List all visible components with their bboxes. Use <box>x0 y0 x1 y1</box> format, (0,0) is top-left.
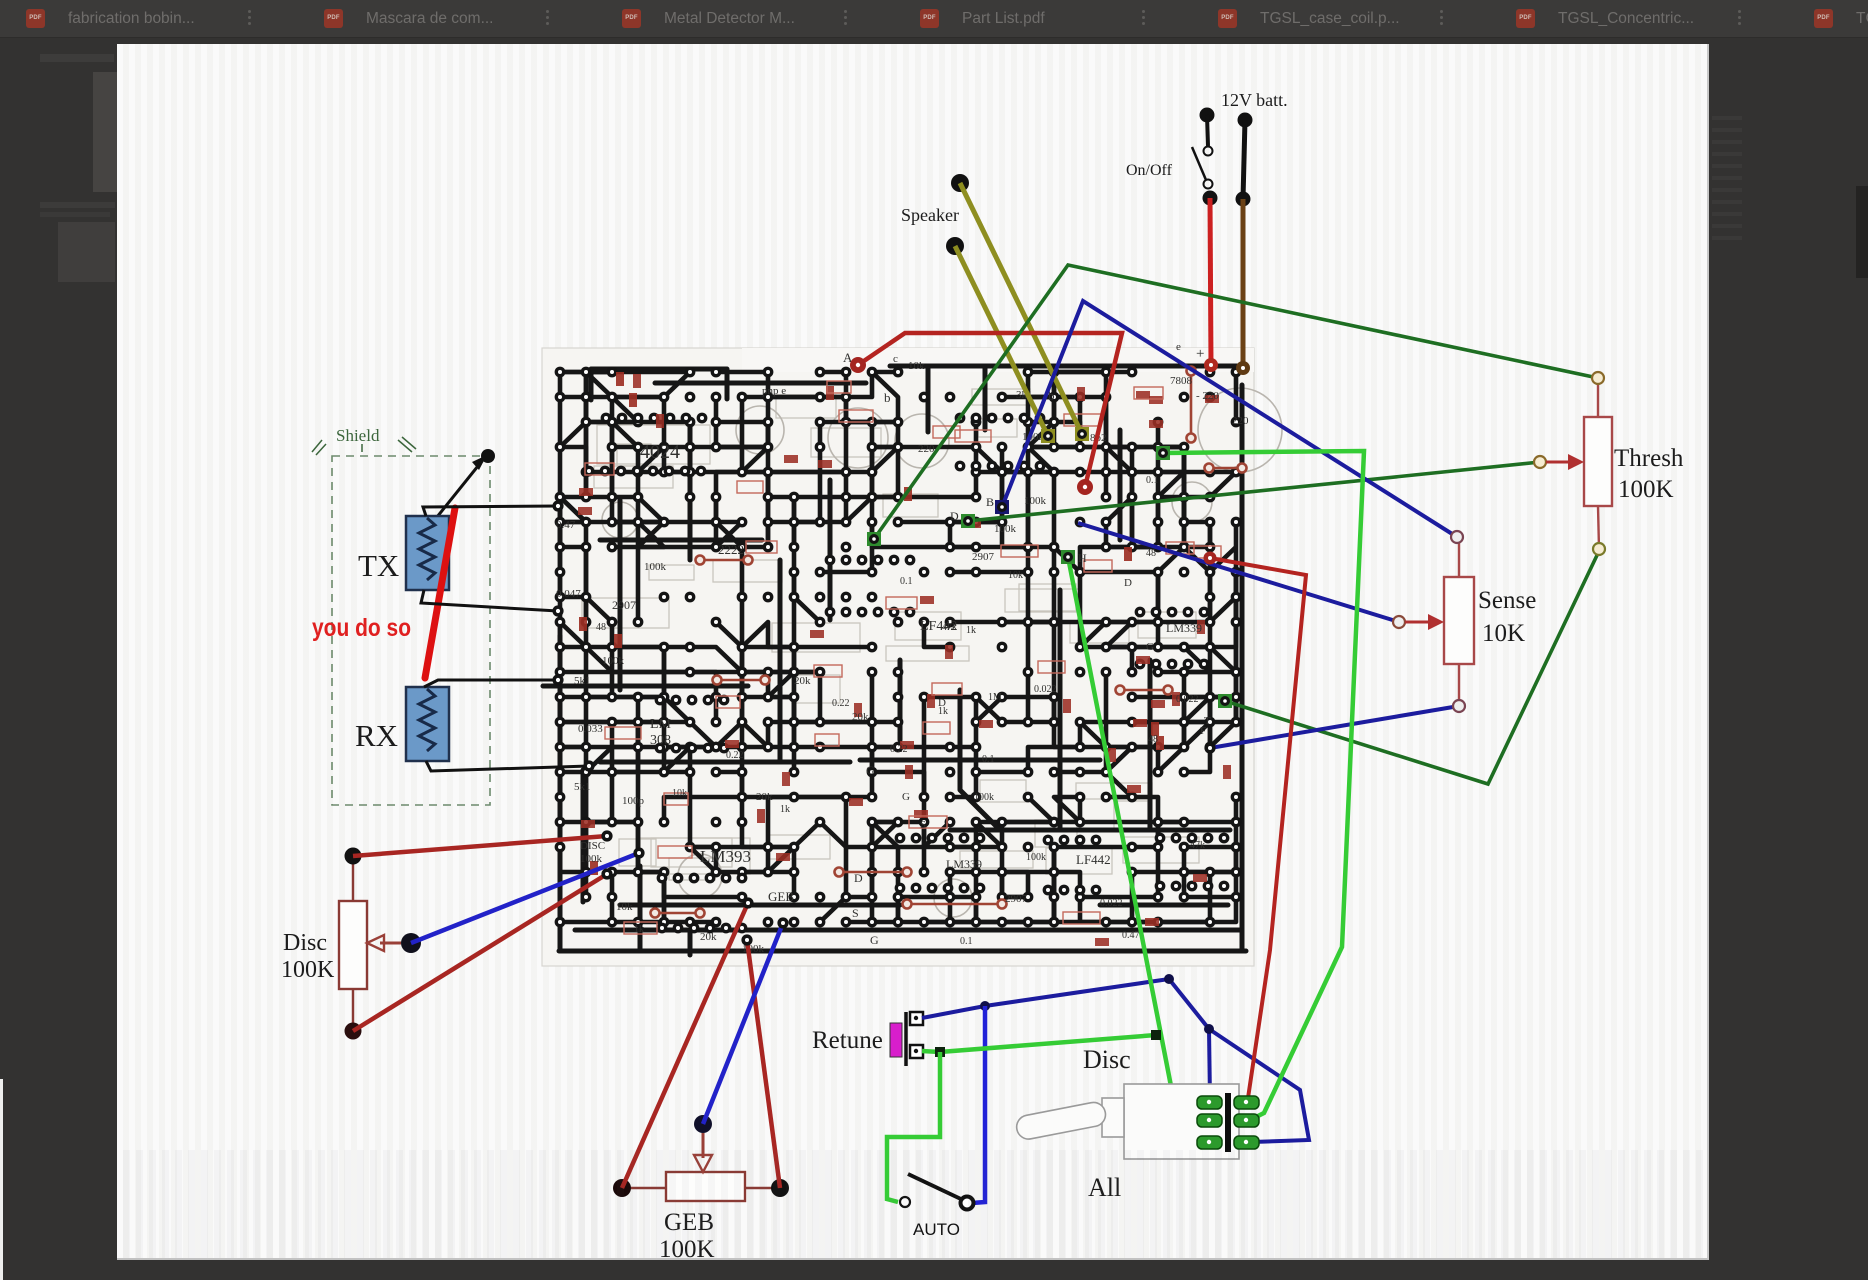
thick red coil interconnect <box>425 508 455 678</box>
PCB text labels <box>556 341 1249 955</box>
bright green wire junction squares <box>935 1030 1161 1057</box>
GEB label <box>659 1209 715 1263</box>
svg-text:12V batt.: 12V batt. <box>1221 90 1288 110</box>
PCB scan background <box>542 348 1254 966</box>
svg-text:D: D <box>950 509 959 523</box>
svg-text:48: 48 <box>1146 548 1156 559</box>
svg-text:G: G <box>870 933 879 947</box>
svg-text:1k: 1k <box>780 804 790 815</box>
svg-text:0.1: 0.1 <box>1146 475 1159 486</box>
electrolytic capacitor outlines <box>602 388 1282 917</box>
dark green wire: PCB to Thresh bottom <box>1218 549 1600 784</box>
coil TX <box>406 516 449 590</box>
blue wire Retune junction to AUTO switch <box>972 1006 985 1203</box>
speaker wire 2 (olive) <box>955 246 1048 436</box>
pads for coil wires <box>552 500 594 771</box>
switched battery wire (red) to PCB + <box>1203 191 1219 373</box>
svg-text:100k: 100k <box>1024 495 1047 507</box>
shield dashed enclosure <box>332 456 490 805</box>
svg-text:100K: 100K <box>1618 476 1674 503</box>
blue wire junction dots <box>980 974 1214 1034</box>
white notch at screen left edge <box>0 1079 3 1280</box>
toggle green terminals <box>1197 1096 1259 1149</box>
svg-text:0.022: 0.022 <box>1176 694 1199 705</box>
svg-text:10k: 10k <box>672 788 687 799</box>
battery positive lead (black then brown) <box>1236 113 1253 376</box>
svg-text:S: S <box>920 819 926 831</box>
svg-text:0.1: 0.1 <box>982 754 995 765</box>
svg-text:D: D <box>854 871 863 885</box>
potentiometer Disc 100K <box>339 848 421 1040</box>
svg-text:20k: 20k <box>756 791 773 803</box>
svg-text:4024: 4024 <box>640 441 680 463</box>
battery negative lead <box>1200 108 1215 147</box>
svg-text:2907: 2907 <box>1005 893 1028 905</box>
blue wire Disc wiper to PCB <box>411 853 639 943</box>
svg-text:100k: 100k <box>994 523 1017 535</box>
svg-text:Sense: Sense <box>1478 587 1536 614</box>
svg-text:220: 220 <box>1232 415 1249 427</box>
bright green wire PCB pad H to toggle middle-left <box>1061 550 1199 1122</box>
Disc label <box>281 930 335 983</box>
browser tab bar <box>0 0 1868 38</box>
svg-text:G: G <box>902 791 910 803</box>
coil RX <box>406 687 449 761</box>
svg-text:10K: 10K <box>1482 620 1525 647</box>
svg-text:T: T <box>1204 715 1211 727</box>
red wire A: pad A to inner pad <box>850 333 1122 495</box>
svg-text:Speaker: Speaker <box>901 205 959 225</box>
svg-text:0.033: 0.033 <box>578 723 603 735</box>
maroon jumper links <box>651 367 1247 918</box>
svg-text:2222: 2222 <box>718 542 744 557</box>
svg-text:G: G <box>866 763 875 777</box>
svg-text:On/Off: On/Off <box>1126 162 1173 179</box>
svg-text:0.022: 0.022 <box>1034 684 1057 695</box>
dark red wire GEB left to PCB <box>622 903 748 1188</box>
Sense label <box>1478 587 1536 647</box>
svg-text:220: 220 <box>918 443 935 455</box>
svg-text:5k1: 5k1 <box>574 781 591 793</box>
wire TX top to PCB <box>423 506 558 516</box>
svg-text:S: S <box>852 906 859 920</box>
svg-text:308: 308 <box>650 733 671 748</box>
svg-text:D: D <box>938 697 946 709</box>
svg-text:20k: 20k <box>852 711 869 723</box>
dimmed underlying page, left side <box>40 54 114 62</box>
svg-text:you do so: you do so <box>312 614 411 642</box>
svg-text:0.022: 0.022 <box>1100 898 1123 909</box>
svg-text:5k1: 5k1 <box>574 675 591 687</box>
blue wire: Sense bottom to pad F <box>1210 706 1459 748</box>
svg-text:20k: 20k <box>794 675 811 687</box>
svg-text:100k: 100k <box>974 792 994 803</box>
svg-text:c: c <box>893 353 898 365</box>
svg-text:+: + <box>1196 346 1204 362</box>
svg-text:10k: 10k <box>908 360 925 372</box>
wire RX bottom to PCB <box>426 761 589 771</box>
dark green wire: pad D to Thresh wiper <box>961 462 1540 528</box>
pad F <box>1204 742 1215 753</box>
svg-text:GEB: GEB <box>768 889 794 904</box>
svg-text:47k: 47k <box>942 622 957 633</box>
svg-text:LM393: LM393 <box>700 847 751 866</box>
svg-text:1k: 1k <box>966 625 976 636</box>
svg-text:TX: TX <box>358 548 399 583</box>
potentiometer Thresh 100K <box>1534 372 1612 555</box>
svg-text:Thresh: Thresh <box>1614 445 1684 472</box>
shield drain wire with arrow <box>437 449 495 517</box>
svg-text:0.22: 0.22 <box>726 750 744 761</box>
svg-text:DISC: DISC <box>580 840 605 852</box>
dark red wire Disc top to PCB <box>353 836 607 856</box>
pad B <box>995 500 1009 514</box>
dark green wire: PCB to Thresh top <box>867 265 1598 546</box>
svg-text:100k: 100k <box>1026 852 1046 863</box>
svg-text:1M: 1M <box>988 692 1002 703</box>
svg-text:100K: 100K <box>281 957 335 983</box>
svg-text:0.047: 0.047 <box>556 588 581 600</box>
svg-text:0.22: 0.22 <box>890 744 908 755</box>
svg-text:48: 48 <box>1148 734 1158 745</box>
svg-text:- 220: - 220 <box>1196 390 1219 402</box>
svg-text:LM: LM <box>650 717 672 732</box>
svg-text:RX: RX <box>355 718 398 753</box>
AUTO switch <box>900 1174 974 1210</box>
dark red wire Disc bottom to PCB <box>353 874 607 1031</box>
Retune button <box>890 1012 923 1066</box>
svg-text:1k: 1k <box>634 924 644 935</box>
svg-text:LM339: LM339 <box>1166 621 1202 635</box>
bright green wire to AUTO switch <box>887 1052 940 1202</box>
wire TX bottom to PCB <box>421 590 558 611</box>
PCB silkscreen component outlines <box>582 389 1199 880</box>
shield label <box>312 426 416 455</box>
svg-text:Retune: Retune <box>812 1027 883 1054</box>
PCB copper traces <box>543 366 1246 955</box>
svg-text:0.1: 0.1 <box>900 576 913 587</box>
red wire PCB to toggle top-right <box>1204 552 1307 1099</box>
svg-text:7808: 7808 <box>1170 375 1193 387</box>
svg-text:Disc: Disc <box>283 930 327 956</box>
bright green wire Retune to toggle <box>922 1035 1156 1052</box>
blue wire Retune to toggle <box>922 979 1309 1142</box>
svg-text:47k: 47k <box>1190 840 1205 851</box>
On/Off switch <box>1192 147 1213 189</box>
svg-text:Shield: Shield <box>336 426 380 445</box>
dimmed content, right side <box>1712 108 1742 248</box>
speaker terminal dots <box>951 174 969 192</box>
svg-text:10k: 10k <box>616 901 633 913</box>
bright green wire PCB to toggle right column <box>1156 446 1364 1119</box>
svg-text:20k: 20k <box>700 931 717 943</box>
dark red wire GEB right to PCB <box>747 940 780 1188</box>
svg-text:B: B <box>986 495 994 509</box>
toggle switch Disc/All <box>1015 1084 1239 1159</box>
Disc wire pads <box>601 830 644 879</box>
potentiometer GEB 100K <box>613 1115 789 1201</box>
svg-text:pnp e: pnp e <box>762 385 786 397</box>
svg-text:G: G <box>1146 641 1154 653</box>
svg-text:48: 48 <box>596 622 606 633</box>
speaker pads on PCB <box>1041 427 1089 443</box>
speaker wire 1 (olive) <box>960 183 1082 434</box>
svg-text:100k: 100k <box>602 655 625 667</box>
svg-text:0.47: 0.47 <box>556 519 576 531</box>
blue wire: PCB to Sense wiper <box>1078 523 1399 622</box>
red component marks <box>578 372 1231 946</box>
GEB wire pads <box>741 897 788 945</box>
svg-text:LM339: LM339 <box>946 857 982 871</box>
svg-text:100p: 100p <box>622 795 645 807</box>
svg-text:100k: 100k <box>644 561 667 573</box>
svg-text:100k: 100k <box>580 853 603 865</box>
blue wire GEB wiper to PCB <box>703 923 783 1124</box>
svg-text:2907: 2907 <box>972 551 995 563</box>
svg-text:D: D <box>1124 577 1132 589</box>
svg-text:H: H <box>1078 551 1087 565</box>
svg-text:e: e <box>1176 341 1181 353</box>
svg-text:0.47: 0.47 <box>1122 930 1140 941</box>
svg-text:10k: 10k <box>1008 570 1023 581</box>
Thresh label <box>1614 445 1684 503</box>
wire RX top to PCB <box>424 680 558 687</box>
svg-text:LF442: LF442 <box>1076 852 1111 867</box>
svg-text:2907: 2907 <box>612 598 636 612</box>
PCB solder pads <box>555 367 1242 934</box>
blue wire: pad B to Sense top <box>1002 301 1457 537</box>
potentiometer Sense 10K <box>1393 531 1474 712</box>
svg-text:0.1: 0.1 <box>960 936 973 947</box>
svg-text:b: b <box>884 390 891 405</box>
svg-text:Disc: Disc <box>1083 1045 1131 1074</box>
svg-text:0.22: 0.22 <box>832 698 850 709</box>
